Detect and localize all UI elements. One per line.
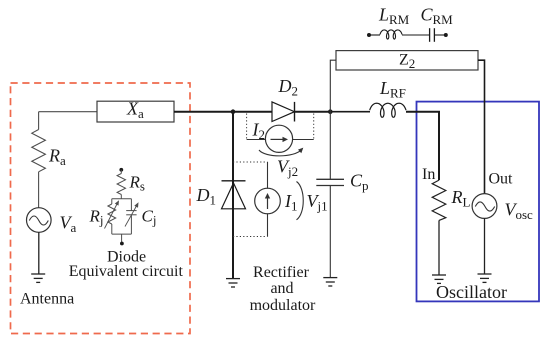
wire: Z_2 left stub and drop xyxy=(330,60,336,111)
wire: C_RM to right dot xyxy=(434,34,445,36)
svg-text:Cp: Cp xyxy=(350,171,369,194)
wire: C_p to ground xyxy=(329,186,331,278)
wire: R_a to V_a xyxy=(38,172,40,208)
wire: box to bottom dot xyxy=(121,234,123,243)
current source I_1 xyxy=(255,188,281,214)
wire: R_a upper lead xyxy=(38,112,40,130)
svg-text:Xa: Xa xyxy=(126,99,144,122)
wire: R_s to parallel box xyxy=(120,195,122,199)
wire: I_1 upper lead xyxy=(267,162,269,189)
wire: R_L to ground xyxy=(438,220,440,274)
junction dot at D_1 branch xyxy=(231,109,236,114)
diode D_1 xyxy=(222,180,246,182)
resistor R_L xyxy=(432,180,446,220)
source V_osc xyxy=(472,194,497,219)
resistor R_s xyxy=(117,174,125,195)
svg-text:Antenna: Antenna xyxy=(20,291,74,308)
main wire: X_a to D_2 anode xyxy=(174,111,272,113)
reactance box X_a xyxy=(97,101,174,122)
svg-text:D2: D2 xyxy=(278,76,299,99)
capacitor C_p xyxy=(316,178,344,180)
wire: L_RF to In (bend) xyxy=(406,112,439,180)
svg-text:CRM: CRM xyxy=(421,5,454,28)
impedance box Z_2 xyxy=(336,51,478,70)
svg-text:Vj2: Vj2 xyxy=(277,157,298,180)
wire: V_osc to ground xyxy=(484,218,486,273)
inductor L_RM xyxy=(380,30,402,39)
dotted link left of I_2 xyxy=(246,114,248,140)
ground (R_L) xyxy=(432,275,446,283)
wire: L_RM to C_RM xyxy=(402,34,430,36)
wire: I_2 branch right xyxy=(292,139,314,141)
svg-text:Rj: Rj xyxy=(89,207,104,228)
wire: Z_2 right stub and drop xyxy=(478,60,485,194)
wire: junction down to D_1 xyxy=(232,112,234,279)
inductor L_RF xyxy=(370,103,406,117)
svg-text:Rectifier: Rectifier xyxy=(253,264,310,281)
ground (V_osc) xyxy=(478,274,492,282)
svg-text:Equivalent circuit: Equivalent circuit xyxy=(69,263,184,280)
svg-text:Vj1: Vj1 xyxy=(307,191,328,214)
svg-text:Vosc: Vosc xyxy=(505,200,534,223)
parallel box top bar xyxy=(112,198,132,200)
svg-text:Rs: Rs xyxy=(129,173,145,194)
svg-text:I1: I1 xyxy=(284,191,298,214)
diode equivalent bottom node dot xyxy=(120,242,124,246)
svg-text:LRM: LRM xyxy=(378,5,410,28)
svg-text:modulator: modulator xyxy=(250,297,316,314)
svg-text:Z2: Z2 xyxy=(399,52,415,72)
node dot (C_RM right) xyxy=(444,33,448,37)
svg-text:I2: I2 xyxy=(252,120,266,143)
arrow through R_j xyxy=(105,203,118,229)
dotted link bottom of I_1 xyxy=(233,236,268,238)
wire: dot to R_s xyxy=(120,170,122,174)
svg-text:Ra: Ra xyxy=(48,146,66,169)
current source I_2 xyxy=(265,125,292,152)
svg-text:LRF: LRF xyxy=(379,78,406,101)
diode equivalent circuit: top node dot xyxy=(119,168,123,172)
svg-text:Va: Va xyxy=(60,213,77,236)
V_j1 measurement arc xyxy=(297,182,304,220)
ground (rectifier left) xyxy=(226,279,240,287)
main wire: junction to L_RF xyxy=(330,111,370,113)
resistor R_a xyxy=(32,130,46,172)
node dot (L_RM left) xyxy=(367,33,371,37)
capacitor C_RM xyxy=(429,28,431,42)
resistor R_j (left branch, variable) xyxy=(111,199,113,204)
svg-text:In: In xyxy=(422,166,435,183)
svg-text:Out: Out xyxy=(489,171,514,188)
wire: I_1 lower lead xyxy=(267,213,269,236)
svg-text:D1: D1 xyxy=(196,185,217,208)
oscillator blue box xyxy=(417,102,540,302)
svg-text:and: and xyxy=(270,280,293,297)
svg-text:Cj: Cj xyxy=(142,207,157,228)
svg-text:RL: RL xyxy=(451,187,471,210)
ground (antenna) xyxy=(31,274,45,282)
capacitor C_j (right branch, variable) xyxy=(130,199,132,211)
source V_a xyxy=(27,208,52,233)
wire: junction down to C_p xyxy=(329,112,331,180)
wire: antenna top (V_a/R_a to X_a box) xyxy=(39,111,97,113)
wire: V_a to ground xyxy=(38,232,40,274)
main wire: D_2 cathode to Z_2 junction xyxy=(295,111,331,113)
dotted link right of I_2 xyxy=(313,114,315,140)
ground (C_p) xyxy=(323,278,337,286)
wire: dot to L_RM xyxy=(369,34,380,36)
wire: I_2 branch left xyxy=(247,139,266,141)
V_j2 measurement arc xyxy=(259,150,302,156)
diode D_2 xyxy=(272,102,295,122)
svg-text:Oscillator: Oscillator xyxy=(436,282,507,302)
junction dot at Z_2 branch xyxy=(328,109,333,114)
parallel box bottom bar xyxy=(112,233,132,235)
antenna dashed box xyxy=(11,83,191,334)
dotted link top of I_1 xyxy=(233,161,268,163)
arrow through C_j xyxy=(125,205,137,227)
